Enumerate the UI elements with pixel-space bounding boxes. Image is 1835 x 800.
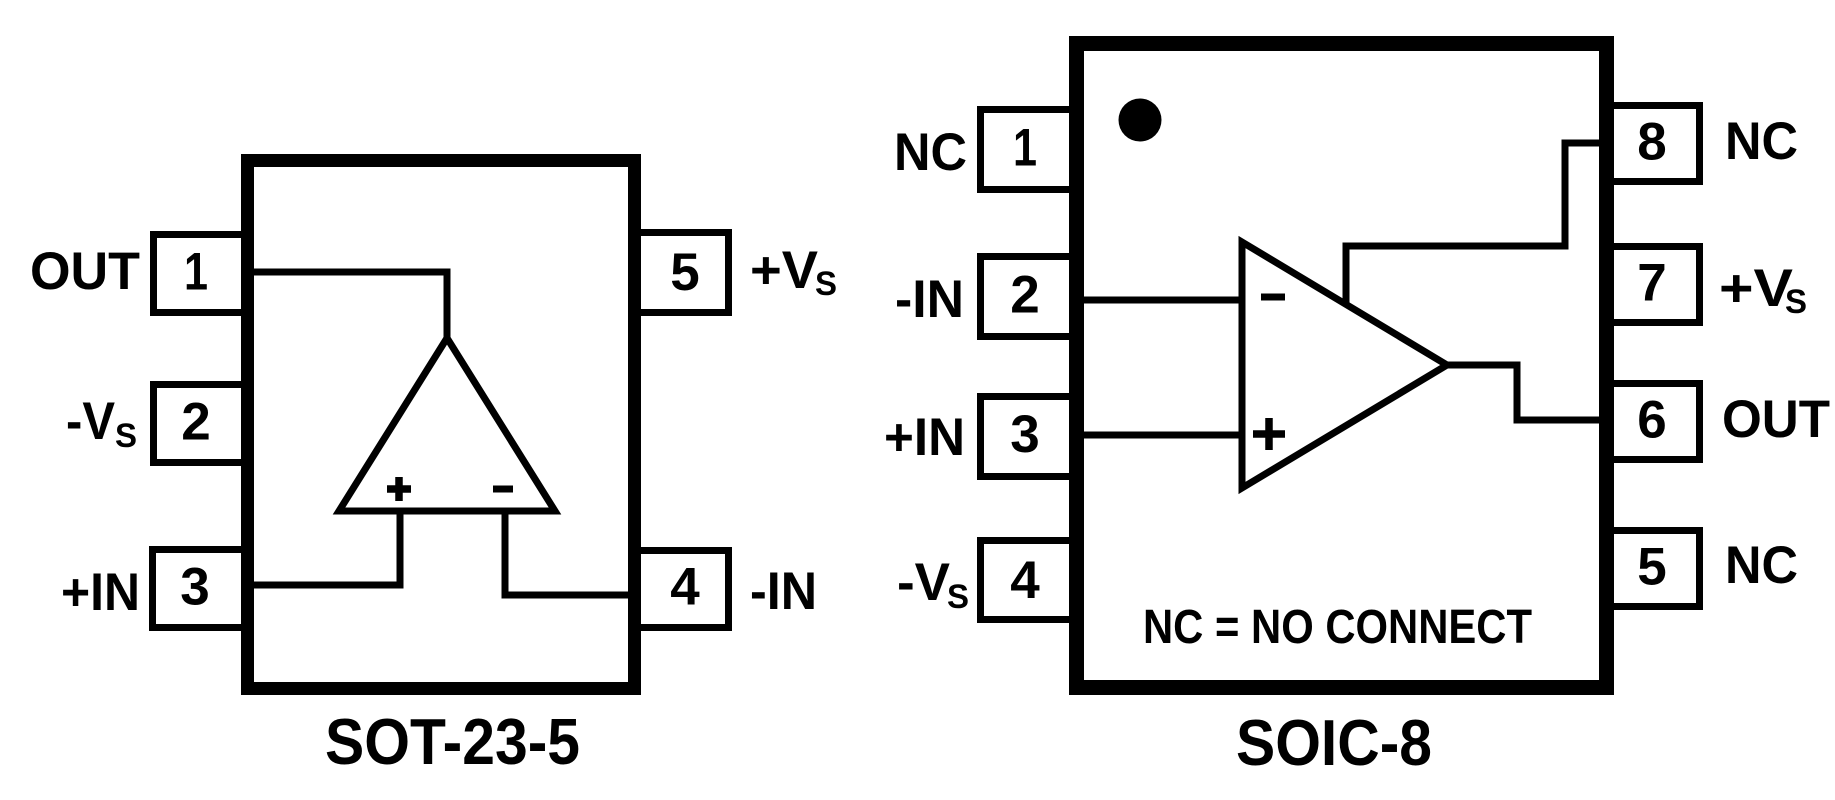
svg-text:OUT: OUT [1722,390,1830,449]
svg-text:1: 1 [184,243,208,302]
svg-text:2: 2 [1010,266,1039,325]
wire pin4 to op-amp - input (SOT-23-5) [505,508,645,595]
op-amp U2 plus input symbol [1253,418,1285,450]
svg-text:6: 6 [1637,391,1666,450]
wire pin3 to op-amp + input (SOIC-8) [1069,432,1245,439]
svg-text:-IN: -IN [895,270,964,329]
svg-text:3: 3 [1010,405,1039,464]
pin 5 box (SOIC-8) [1607,531,1700,607]
pin 3 box (SOT-23-5) [153,550,249,628]
wire pin1 to op-amp apex (SOT-23-5) [243,272,447,341]
svg-text:+V: +V [750,241,818,300]
svg-text:+IN: +IN [884,408,965,467]
svg-text:S: S [815,265,837,303]
pin 4 box (SOT-23-5) [635,551,729,628]
svg-text:4: 4 [1010,551,1040,610]
pin 1 box (SOIC-8) [981,110,1077,190]
pin 5 box (SOT-23-5) [635,233,729,313]
SOT-23-5 package body [248,161,635,689]
op-amp U2 triangle (SOIC-8) [1242,242,1447,488]
svg-text:-V: -V [897,553,950,612]
svg-text:4: 4 [670,558,700,617]
svg-text:8: 8 [1637,113,1666,172]
pin 3 box (SOIC-8) [981,397,1077,477]
SOIC-8 package body [1077,44,1607,688]
svg-text:S: S [947,578,969,616]
pin 6 box (SOIC-8) [1607,384,1700,460]
op-amp U1 triangle (SOT-23-5) [339,338,555,511]
svg-text:+IN: +IN [61,563,140,622]
svg-text:OUT: OUT [30,242,140,301]
svg-text:-V: -V [66,392,115,451]
svg-text:1: 1 [1013,119,1037,178]
op-amp U1 plus input symbol [387,477,411,501]
svg-text:NC: NC [1725,112,1798,171]
svg-text:SOT-23-5: SOT-23-5 [325,705,580,778]
svg-text:S: S [1785,283,1807,321]
svg-text:S: S [115,417,137,455]
op-amp U1 minus input symbol [493,486,513,493]
svg-text:NC: NC [1725,536,1798,595]
svg-text:5: 5 [1637,538,1666,597]
wire op-amp output to pin 6 (SOIC-8) [1447,365,1614,420]
svg-text:3: 3 [180,558,209,617]
svg-text:SOIC-8: SOIC-8 [1236,706,1432,779]
wire pin2 to op-amp - input (SOIC-8) [1069,297,1245,304]
svg-text:5: 5 [670,243,699,302]
pin 2 box (SOIC-8) [981,257,1077,337]
pin 1 orientation dot (SOIC-8) [1119,99,1162,142]
op-amp U2 minus input symbol [1261,294,1285,301]
svg-text:7: 7 [1637,254,1666,313]
pin 4 box (SOIC-8) [981,541,1077,620]
wire op-amp top edge to pin 8 (SOIC-8) [1346,143,1614,307]
svg-text:NC = NO CONNECT: NC = NO CONNECT [1143,601,1532,654]
svg-text:2: 2 [181,393,210,452]
pin 1 box (SOT-23-5) [154,235,249,313]
svg-text:-IN: -IN [750,562,817,621]
pin 2 box (SOT-23-5) [154,385,249,463]
pin 8 box (SOIC-8) [1607,106,1700,182]
wire pin3 to op-amp + input (SOT-23-5) [243,508,400,585]
svg-text:NC: NC [894,123,967,182]
svg-text:+V: +V [1719,259,1793,318]
pin 7 box (SOIC-8) [1607,247,1700,323]
